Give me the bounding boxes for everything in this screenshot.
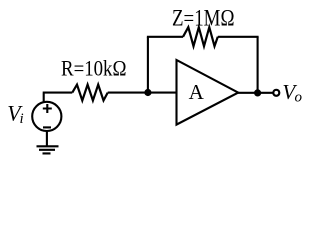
svg-text:A: A (189, 80, 205, 104)
svg-text:i: i (20, 111, 24, 127)
svg-text:R=10kΩ: R=10kΩ (61, 55, 127, 80)
svg-text:o: o (295, 90, 303, 106)
svg-text:Z=1MΩ: Z=1MΩ (172, 5, 235, 30)
